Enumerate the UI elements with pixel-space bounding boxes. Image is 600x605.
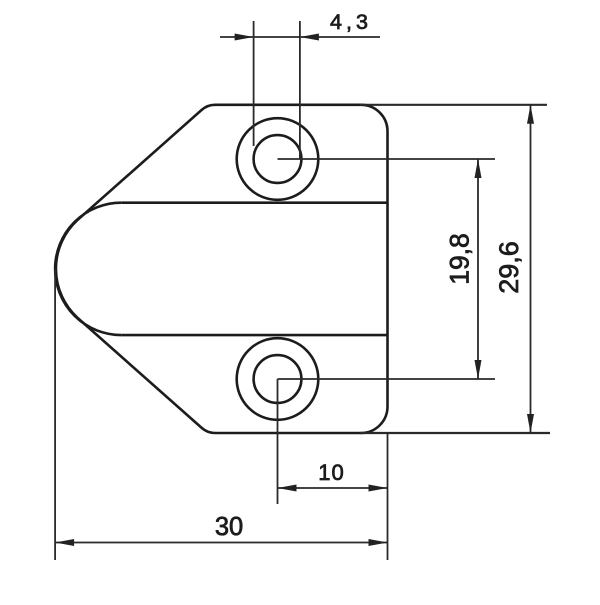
upper face edge line — [121, 201, 387, 204]
arrowhead 10 left — [278, 485, 297, 492]
arrowhead 29,6 up — [527, 105, 534, 124]
arrowhead 4,3 right (outside, pointing left) — [300, 34, 319, 41]
dimension line 4,3 — [220, 36, 380, 38]
extension line right of 4,3 — [299, 21, 301, 160]
left nose arc — [55, 203, 121, 335]
svg-text:10: 10 — [318, 460, 344, 485]
part body outline — [56, 105, 388, 433]
svg-text:19,8: 19,8 — [445, 233, 475, 285]
extension line left of 4,3 — [253, 21, 255, 146]
bottom hole inner circle — [254, 355, 302, 403]
arrowhead 19,8 down — [475, 360, 482, 379]
left extension line from nose — [54, 269, 56, 560]
arrowhead 19,8 up — [475, 159, 482, 178]
dimension line 10 — [278, 487, 388, 489]
arrowhead 30 left — [55, 539, 74, 546]
top hole inner circle (4,3 dia) — [254, 135, 302, 183]
bottom edge extension to right — [360, 432, 550, 434]
dimension line 19,8 — [477, 159, 479, 379]
arrowhead 29,6 down — [527, 414, 534, 433]
dimension line 29,6 — [530, 105, 532, 433]
dimension line 30 — [55, 542, 387, 544]
arrowhead 10 right — [369, 485, 388, 492]
svg-text:29,6: 29,6 — [494, 241, 524, 294]
bottom hole outer circle — [237, 338, 319, 420]
svg-text:30: 30 — [215, 513, 243, 541]
svg-text:4,3: 4,3 — [330, 10, 372, 34]
bottom hole centre line downward — [277, 379, 279, 504]
arrowhead 30 right — [369, 539, 388, 546]
top hole outer circle — [237, 118, 319, 200]
bottom hole centre line to right — [278, 378, 496, 380]
arrowhead 4,3 left (outside, pointing right) — [235, 34, 254, 41]
right extension line below body — [387, 433, 389, 560]
lower face edge line — [121, 334, 387, 337]
top edge extension to right — [360, 104, 547, 106]
top hole centre line to right — [278, 158, 496, 160]
